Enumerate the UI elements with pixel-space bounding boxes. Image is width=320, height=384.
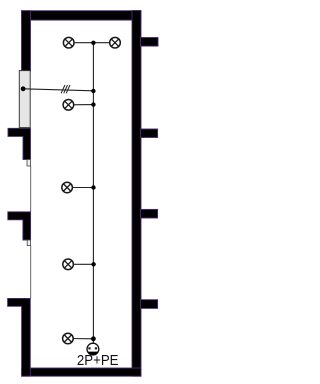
svg-text:2P+PE: 2P+PE <box>77 353 119 369</box>
